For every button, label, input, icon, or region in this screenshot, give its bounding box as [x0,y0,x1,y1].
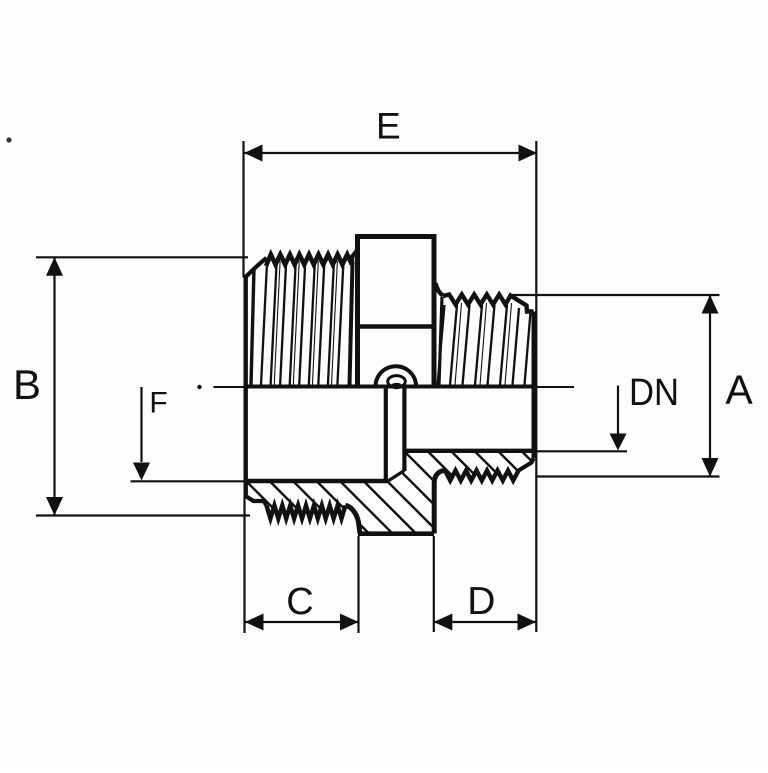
svg-text:F: F [149,387,167,420]
arrowhead E right [519,145,538,162]
left thread flank lines [251,261,353,385]
hex-to-right-thread riser [434,471,445,534]
speck artifact [6,137,11,142]
keyhole arch at hex center [376,366,417,386]
section outline: large bore bottom [246,479,389,483]
arrowhead D right [518,614,537,631]
svg-text:B: B [13,361,41,408]
dimension D [434,536,536,632]
left thread end face [243,276,247,497]
bore step edge line (small) [402,387,406,471]
right thread end face [532,312,536,459]
bottom-right thread teeth [445,471,519,481]
bottom-left thread teeth [267,506,346,519]
left thread lead chamfer [244,258,267,279]
bottom-left corner runout curve [345,506,360,534]
arrowhead DN [610,434,627,451]
right thread flank lines [438,297,531,385]
arrowhead F [133,463,150,481]
arrowhead B top [46,257,63,276]
svg-text:DN: DN [629,372,679,414]
dimension A [512,295,720,477]
hex bottom flat [358,531,434,536]
keyhole inner ring [388,376,406,388]
arrowhead D left [434,614,453,631]
arrowhead A bottom [702,458,719,477]
dimension F [131,387,246,481]
arrowhead C left [245,614,264,631]
svg-text:D: D [467,580,495,623]
hex body [358,234,435,387]
cone chamfer [388,471,404,482]
centerline axis [197,385,574,389]
right thread crest zigzag [443,295,534,312]
arrowhead E left [244,145,263,162]
dimension E [244,141,538,632]
arrowhead B bottom [46,497,63,516]
arrowhead A top [702,295,719,314]
bore step edge line (large) [384,387,388,481]
dimension B [36,257,250,515]
left thread crest zigzag [266,250,358,266]
dimension DN [531,386,627,452]
keyhole blob [391,383,403,389]
hatched section fill [246,451,534,534]
svg-text:C: C [286,581,313,623]
section outer profile left: end chamfer [246,496,267,506]
svg-text:A: A [725,367,753,413]
svg-text:E: E [376,106,401,147]
arrowhead C right [340,614,359,631]
small bore bottom [404,449,533,453]
dimension C [245,497,359,633]
right thread runout curve at hex [436,283,444,296]
bottom-right end chamfer [519,459,534,471]
